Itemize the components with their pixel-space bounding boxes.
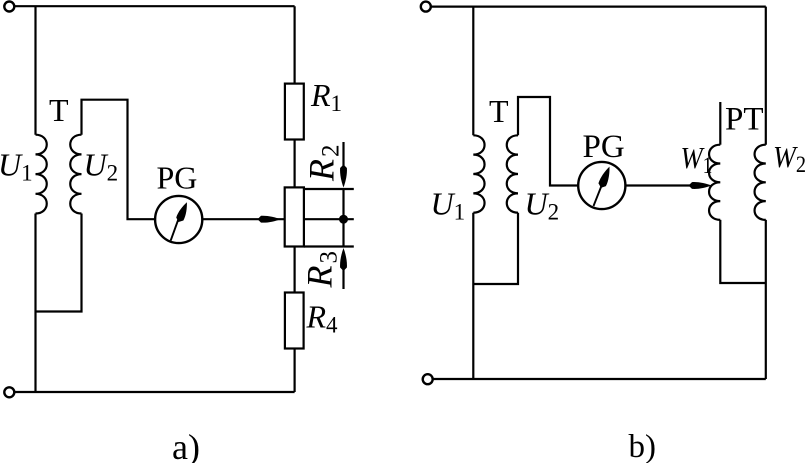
winding W2 of transformer PT (b): [755, 145, 766, 220]
arrowhead R2 down (a): [340, 165, 347, 188]
wire left rail upper (b): [472, 7, 474, 136]
wire tap vertical link (a): [342, 189, 344, 247]
arrow line R3 (a): [342, 269, 344, 289]
winding U2 of transformer T (a): [70, 135, 81, 214]
wire R1 to rheostat (a): [294, 140, 296, 188]
wire U2 bottom lead (b): [473, 213, 518, 284]
svg-text:T: T: [49, 92, 69, 128]
svg-text:R4: R4: [306, 299, 339, 338]
wire rheostat to R4 (a): [294, 247, 296, 293]
PG needle (a): [171, 212, 181, 241]
winding U1 of transformer T (a): [36, 135, 47, 214]
arrowhead W1 arrow (b): [689, 182, 712, 189]
svg-text:PG: PG: [157, 160, 198, 196]
terminal bottom-left (a): [4, 387, 14, 397]
wire tap bottom (a): [304, 245, 354, 247]
arrowhead PG needle (b): [597, 165, 613, 189]
wire bottom rail (b): [433, 378, 766, 380]
svg-text:R2: R2: [302, 145, 345, 183]
svg-text:b): b): [629, 429, 657, 463]
junction dot (a): [339, 215, 348, 224]
svg-text:U2: U2: [525, 186, 560, 225]
wire PG to rheostat wiper (a): [202, 218, 284, 220]
terminal top-left (a): [4, 2, 14, 12]
PG needle (b): [594, 182, 604, 206]
resistor R1 box (a): [285, 84, 304, 140]
galvanometer PG circle (a): [155, 196, 202, 243]
wire tap top (a): [304, 188, 354, 190]
winding W1 of transformer PT (b): [709, 145, 720, 220]
wire R4 to bottom rail (a): [294, 349, 296, 393]
wire left rail upper (a): [34, 6, 36, 135]
arrowhead R3 up (a): [340, 248, 347, 271]
svg-text:U1: U1: [0, 147, 33, 186]
wire left rail lower (a): [34, 214, 36, 393]
winding U1 of transformer T (b): [473, 135, 484, 212]
svg-text:a): a): [172, 427, 200, 463]
svg-text:W2: W2: [773, 139, 805, 177]
rheostat box R2/R3 (a): [285, 187, 304, 246]
arrowhead PG needle (a): [175, 201, 191, 224]
wire U2 bottom lead (a): [36, 214, 82, 312]
wire right drop to R1 (a): [294, 6, 296, 83]
wire tap middle (a): [304, 218, 354, 220]
svg-text:R3: R3: [300, 251, 343, 289]
wire right rail upper (b): [765, 7, 767, 145]
wire top rail (a): [14, 5, 294, 7]
svg-text:R1: R1: [310, 77, 342, 116]
wire W1 bottom lead (b): [720, 220, 766, 283]
svg-text:U1: U1: [431, 186, 466, 225]
arrow line R2 (a): [342, 142, 344, 168]
wire W1 top stub (b): [719, 102, 721, 145]
wire U2 top lead to PG (a): [82, 100, 156, 220]
wire U2 top lead to PG (b): [518, 97, 578, 186]
terminal top-left (b): [421, 2, 431, 12]
svg-text:T: T: [489, 93, 509, 129]
svg-text:PG: PG: [583, 129, 625, 165]
svg-text:U2: U2: [84, 147, 119, 186]
svg-text:PT: PT: [725, 102, 764, 138]
wire right rail lower (b): [765, 220, 767, 379]
wire left rail lower (b): [472, 213, 474, 379]
wire PG to W1 tap (b): [625, 184, 705, 186]
galvanometer PG circle (b): [578, 162, 625, 209]
arrowhead wiper arrow (a): [258, 216, 281, 223]
svg-text:W1: W1: [681, 140, 713, 178]
wire top rail (b): [431, 5, 766, 7]
resistor R4 box (a): [285, 293, 304, 349]
terminal bottom-left (b): [423, 374, 433, 384]
wire bottom rail (a): [14, 391, 294, 393]
winding U2 of transformer T (b): [507, 135, 518, 212]
